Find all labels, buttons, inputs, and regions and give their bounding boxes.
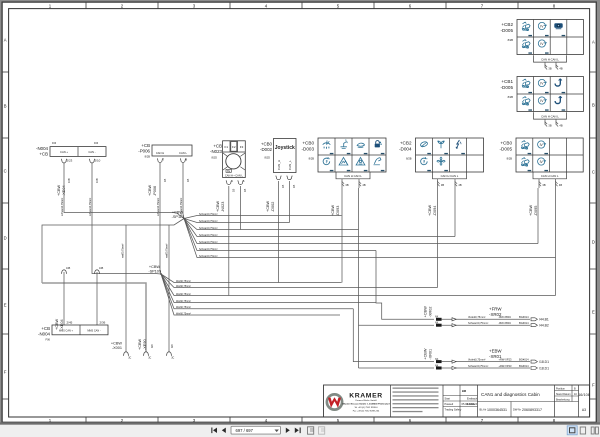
svg-text:F: F (4, 370, 7, 375)
bracket CAN pins +CB0 -D005 mid (533, 172, 567, 188)
label +CBW -XE04 rotated (bottom) (55, 319, 64, 330)
svg-text:A3: A3 (582, 408, 586, 412)
wire SP109 white line 2 (161, 274, 438, 288)
svg-text:3B: 3B (548, 123, 551, 127)
svg-text:3B: 3B (441, 183, 444, 187)
wire P006 pin7 to SP109 (160, 163, 161, 274)
wire N004 pin2/10 to SP109 (92, 163, 161, 274)
svg-text:CAN H CAN L: CAN H CAN L (541, 58, 559, 62)
svg-text:Weiß0,75mm²: Weiß0,75mm² (176, 293, 191, 296)
svg-text:CAN H: CAN H (156, 151, 164, 155)
svg-text:+FRW: +FRW (489, 306, 502, 311)
svg-text:4B: 4B (559, 66, 562, 70)
svg-text:-D005: -D005 (499, 147, 512, 152)
wire D002 CAN_L down (289, 181, 291, 223)
svg-text:Stand Datum: Stand Datum (556, 393, 571, 396)
svg-text:+CBW: +CBW (148, 185, 152, 196)
svg-text:3B: 3B (345, 183, 348, 187)
svg-text:3C: 3C (148, 357, 151, 360)
column index ticks bottom (86, 417, 518, 423)
wire SP109 white line 4 (161, 274, 376, 303)
row letters right band (590, 40, 596, 400)
svg-text:F06: F06 (94, 142, 99, 145)
label +CBW -X001 (111, 342, 122, 351)
svg-text:+CB1: +CB1 (501, 79, 513, 84)
label +CBW -D095 rotated (529, 205, 538, 216)
svg-text:Tel +49 (0) 7552 9288-0: Tel +49 (0) 7552 9288-0 (354, 407, 378, 409)
svg-text:+CB0: +CB0 (261, 142, 273, 147)
svg-text:-D002: -D002 (260, 147, 273, 152)
svg-text:-N023: -N023 (221, 202, 225, 212)
svg-text:+CBW: +CBW (111, 342, 122, 346)
device grid +CB1 -D005 (500, 77, 583, 112)
legal text cell (393, 388, 439, 413)
label +CBW -D002 rotated (266, 185, 296, 212)
svg-text:-XR02: -XR02 (428, 307, 432, 318)
svg-text:Schwarz0,75mm²: Schwarz0,75mm² (468, 364, 488, 368)
svg-text:Schwarz0,75mm²: Schwarz0,75mm² (199, 241, 218, 244)
svg-text:+CBW: +CBW (216, 201, 220, 212)
svg-text:BG#014: BG#014 (519, 364, 529, 368)
svg-text:CAN H • CAN L: CAN H • CAN L (225, 173, 244, 177)
svg-text:F06: F06 (46, 338, 51, 342)
svg-text:Violett0,75mm²: Violett0,75mm² (468, 315, 486, 319)
device grid +CB2 -D004 (399, 138, 484, 172)
wire D093 riser 1 (341, 188, 343, 283)
svg-text:C: C (4, 169, 7, 174)
svg-text:Kramer-Werke GmbH: Kramer-Werke GmbH (355, 399, 377, 402)
svg-text:2060893317: 2060893317 (522, 408, 542, 412)
wire D002 CAN_H down (278, 181, 280, 283)
svg-text:CAN_L: CAN_L (288, 160, 292, 170)
svg-text:-D005: -D005 (500, 85, 513, 90)
svg-text:-XR01: -XR01 (428, 349, 432, 360)
svg-text:-D095: -D095 (534, 206, 538, 216)
svg-text:+RW-XP23: +RW-XP23 (499, 364, 513, 368)
wire X001 stub right (168, 283, 170, 352)
svg-text:4B: 4B (559, 123, 562, 127)
svg-text:1B: 1B (243, 189, 247, 192)
bracket CAN pins +CB1 -D005 (534, 112, 567, 127)
svg-text:BG#014: BG#014 (519, 315, 529, 319)
bracket CAN pins +CB0 -D003 (336, 172, 370, 188)
label +CBW -D094 rotated (428, 205, 437, 216)
wire N023 pin5 down (240, 186, 242, 230)
wire feed to EBW row2 (359, 367, 435, 369)
wire P006 pin8 to SP110 (183, 163, 184, 219)
svg-text:CAN H CAN L: CAN H CAN L (441, 174, 459, 178)
svg-text:+CBW: +CBW (172, 211, 183, 215)
bracket CAN pins +CB2 -D005 (534, 55, 567, 70)
connector +FRW -XR02 (424, 306, 549, 328)
svg-text:CAN +: CAN + (60, 150, 68, 154)
svg-text:/44.B2: /44.B2 (539, 324, 549, 328)
wire D094 riser 2 (454, 188, 456, 237)
svg-text:+CBW: +CBW (331, 205, 335, 216)
svg-text:Erstbach: Erstbach (467, 402, 478, 406)
svg-text:8/2D: 8/2D (265, 156, 271, 160)
svg-text:Bearbeitung: Bearbeitung (556, 399, 570, 402)
wire SP109 white line 6 (161, 274, 340, 315)
svg-text:10B: 10B (95, 178, 99, 183)
svg-text:BG#014: BG#014 (519, 321, 529, 325)
svg-text:+CB: +CB (39, 151, 48, 156)
svg-text:CAN1 and diagnostics Cabin: CAN1 and diagnostics Cabin (481, 392, 540, 397)
svg-text:9/C: 9/C (150, 344, 154, 348)
wire X001 stub left vertical (125, 225, 127, 352)
svg-text:2/23: 2/23 (67, 158, 73, 162)
svg-text:Position: Position (556, 388, 566, 391)
toolbar right single-page button (580, 427, 585, 434)
svg-text:D: D (4, 236, 7, 241)
toolbar nav prev button (222, 428, 226, 433)
svg-text:KRAMER: KRAMER (349, 393, 382, 400)
svg-text:-D005: -D005 (500, 28, 513, 33)
svg-text:Schwarz0,75mm²: Schwarz0,75mm² (199, 248, 218, 251)
wire D095 riser 2 (555, 188, 557, 296)
wire SP110 black line 4 (184, 219, 455, 237)
right info cells (555, 385, 590, 412)
svg-text:697 / 697: 697 / 697 (236, 428, 254, 433)
svg-text:+CB: +CB (141, 143, 150, 148)
KRAMER logo (327, 393, 390, 413)
svg-text:+CBW: +CBW (57, 185, 61, 196)
title text cell (478, 392, 555, 417)
toolbar page combo box (231, 426, 281, 434)
svg-text:-N004: -N004 (38, 331, 51, 336)
svg-text:CAN H CAN L: CAN H CAN L (344, 174, 362, 178)
svg-text:CAN_H: CAN_H (277, 160, 281, 170)
svg-text:9/C: 9/C (170, 344, 174, 348)
stub hooks bottom (123, 352, 128, 356)
wire SP110 black line 5 (184, 219, 538, 244)
label +CBW -P006 rotated (148, 179, 190, 216)
svg-text:Joystick: Joystick (275, 145, 295, 151)
svg-text:+CBW: +CBW (424, 306, 428, 317)
svg-text:CAN L: CAN L (179, 151, 187, 155)
connector box +CB -N004 (bottom left) (38, 321, 108, 342)
svg-text:B: B (592, 103, 595, 108)
title block (324, 385, 590, 417)
svg-text:Start: Start (445, 397, 451, 401)
svg-text:1B: 1B (163, 179, 167, 182)
svg-text:-N023: -N023 (210, 149, 223, 154)
wire D095 riser 1 (537, 188, 539, 244)
toolbar copy-page icon 2 (disabled) (319, 427, 325, 434)
svg-text:schwarz0,75mm²: schwarz0,75mm² (61, 198, 64, 216)
bracket CAN pins +CB2 -D004 (433, 172, 467, 188)
svg-text:1B: 1B (281, 185, 285, 188)
wire SP110 black line 3 (184, 219, 359, 230)
svg-text:Violett0,75mm²: Violett0,75mm² (468, 357, 486, 361)
svg-text:+CBW: +CBW (428, 205, 432, 216)
svg-text:Weiß0,75mm²: Weiß0,75mm² (176, 280, 191, 283)
svg-text:-D094: -D094 (433, 206, 437, 216)
svg-text:F3: F3 (240, 145, 244, 149)
svg-text:+CB2: +CB2 (501, 22, 513, 27)
svg-text:BL-Nr: BL-Nr (480, 408, 487, 412)
svg-text:F: F (592, 383, 595, 388)
svg-text:+CBW: +CBW (266, 201, 270, 212)
toolbar right fit-page button (selected) (567, 426, 577, 435)
toolbar nav first-page button (211, 428, 217, 434)
component box +CB0 -D002 Joystick (260, 139, 296, 180)
svg-text:Weiß0,75mm²: Weiß0,75mm² (176, 285, 191, 288)
svg-text:-D093: -D093 (336, 206, 340, 216)
svg-text:10B: 10B (66, 267, 71, 270)
svg-text:16/108: 16/108 (578, 393, 590, 397)
svg-text:+CBW: +CBW (424, 348, 428, 359)
svg-text:Weiß0,75mm²: Weiß0,75mm² (176, 306, 191, 309)
svg-text:1B: 1B (292, 185, 296, 188)
svg-text:Schwarz0,75mm²: Schwarz0,75mm² (199, 220, 218, 223)
svg-text:3B: 3B (548, 66, 551, 70)
svg-text:-BW-XB04: -BW-XB04 (499, 321, 512, 325)
wire SP110 black line 2 (184, 219, 290, 223)
svg-text:2/10: 2/10 (95, 158, 101, 162)
wire SP109 white line 1 (161, 274, 342, 283)
wire SP110 black line 7 (184, 219, 556, 258)
junction node +CBW -SP110 (172, 211, 185, 220)
svg-text:BG#014: BG#014 (519, 357, 529, 361)
svg-text:Schwarz0,75mm²: Schwarz0,75mm² (199, 234, 218, 237)
svg-text:Schwarz0,75mm²: Schwarz0,75mm² (199, 255, 218, 258)
column numbers bottom (49, 418, 556, 423)
toolbar right two-page button (591, 427, 598, 434)
svg-text:+CB0: +CB0 (302, 141, 314, 146)
wire SP110 black line 6 (184, 219, 376, 251)
wire SP110 black line 1 (184, 216, 342, 219)
svg-text:D: D (592, 240, 595, 245)
label +CBW -XE04 rotated (57, 178, 99, 216)
heavy wire +CBW -XE90 rail (42, 283, 146, 352)
svg-text:weiß0,75mm²: weiß0,75mm² (166, 243, 169, 258)
svg-text:+CBW: +CBW (529, 205, 533, 216)
svg-text:+CB: +CB (41, 326, 50, 331)
svg-text:Schwarz0,75mm²: Schwarz0,75mm² (199, 213, 218, 216)
page bottom shadow (0, 422, 600, 424)
connector box +CB -N004 (top left) (36, 142, 106, 163)
svg-text:C: C (592, 170, 595, 175)
svg-text:+EBW: +EBW (489, 349, 502, 354)
revision cells (443, 385, 478, 417)
svg-text:+CB2: +CB2 (400, 141, 412, 146)
wire D094 riser 1 (437, 188, 439, 288)
wire feed to FRW row1 (376, 251, 434, 320)
svg-text:B: B (4, 104, 7, 109)
svg-text:2/36: 2/36 (100, 321, 106, 325)
label +CBW -XE90 rotated (138, 339, 174, 350)
svg-text:4B: 4B (458, 183, 461, 187)
svg-text:MMS CAN -: MMS CAN - (87, 329, 101, 332)
svg-text:+CBW: +CBW (138, 339, 142, 350)
svg-text:F1: F1 (225, 145, 229, 149)
svg-text:Schwarz0,75mm²: Schwarz0,75mm² (468, 321, 488, 325)
device grid +CB2 -D005 (500, 20, 583, 55)
rotary component +CB -N023 (210, 141, 245, 185)
label +CBW -N023 rotated (216, 189, 247, 212)
svg-text:/44.B1: /44.B1 (539, 318, 549, 322)
svg-text:A: A (592, 40, 595, 45)
wire N023 pin4 down (228, 186, 230, 296)
svg-text:3C: 3C (171, 357, 174, 360)
svg-text:3C: 3C (128, 357, 131, 360)
svg-text:1000364531: 1000364531 (487, 408, 507, 412)
svg-text:1B: 1B (232, 189, 236, 192)
svg-text:F06: F06 (52, 142, 57, 145)
wire SP109 white line 3 (161, 274, 556, 296)
wire feed to EBW row1 (353, 309, 434, 362)
svg-text:2/45: 2/45 (67, 321, 73, 325)
wire feed to FRW row2 (359, 324, 435, 326)
svg-text:CAN H CAN L: CAN H CAN L (541, 174, 559, 178)
svg-text:weiß0,75mm²: weiß0,75mm² (122, 243, 125, 258)
svg-text:8/2B: 8/2B (406, 157, 412, 161)
svg-text:Wacker Neuson Straße 1, D-8863: Wacker Neuson Straße 1, D-88630 Pfullend… (342, 403, 390, 406)
svg-text:-D004: -D004 (399, 147, 412, 152)
svg-text:schwarz0,75mm²: schwarz0,75mm² (157, 198, 160, 216)
wire SP110 left branch rail (42, 219, 184, 284)
svg-text:CAN -: CAN - (88, 150, 95, 154)
svg-text:-X001: -X001 (112, 346, 122, 350)
svg-text:+RW-XP23: +RW-XP23 (499, 357, 513, 361)
wire color labels X001 stubs (122, 243, 169, 258)
column index ticks top (86, 2, 518, 8)
svg-text:BM: BM (462, 389, 466, 393)
svg-text:-XE90: -XE90 (143, 339, 147, 350)
wire SP109 white line 5 (161, 274, 353, 309)
svg-text:8/2B: 8/2B (145, 155, 151, 159)
wire XE04 wire to MMS CAN+ (63, 272, 65, 325)
device grid +CB0 -D003 (301, 138, 386, 172)
svg-text:-D002: -D002 (271, 202, 275, 212)
net arrows bottom XE04 wires (61, 270, 99, 274)
svg-text:-SP110: -SP110 (172, 215, 184, 219)
device grid +CB0 -D005 (499, 138, 583, 172)
wire X001 stub mid vertical (168, 225, 170, 283)
svg-text:10B: 10B (67, 178, 71, 183)
wire XE04 wire to MMS CAN- (96, 272, 98, 325)
svg-text:/18.D1: /18.D1 (539, 366, 549, 370)
svg-text:/18.D1: /18.D1 (539, 360, 549, 364)
svg-text:10B: 10B (99, 267, 104, 270)
svg-text:+CB: +CB (213, 144, 222, 149)
svg-text:3B: 3B (542, 183, 545, 187)
svg-text:Fax +49 (0) 7552 9288-234: Fax +49 (0) 7552 9288-234 (353, 410, 380, 412)
connector +EBW -XR01 (424, 348, 550, 370)
svg-text:8/2B: 8/2B (309, 157, 315, 161)
toolbar strip (0, 425, 600, 437)
label +CBW -D093 rotated (331, 205, 340, 216)
svg-text:Passed: Passed (445, 402, 454, 406)
svg-text:F2: F2 (232, 145, 236, 149)
wire N004 pin2/23 to SP110 (64, 163, 184, 219)
row letters left band (2, 38, 8, 400)
svg-text:E: E (4, 303, 7, 308)
wire D093 riser 2 to FRW/EBW row2 (358, 188, 360, 368)
svg-text:-P006: -P006 (138, 148, 150, 153)
junction node +CBW -SP109 (148, 265, 162, 275)
svg-text:8/2D: 8/2D (212, 156, 218, 160)
svg-text:Schwarz0,75mm²: Schwarz0,75mm² (199, 227, 218, 230)
svg-text:CAN H CAN L: CAN H CAN L (541, 115, 559, 119)
toolbar copy-page icon (308, 427, 314, 434)
svg-text:Weiß0,75mm²: Weiß0,75mm² (176, 300, 191, 303)
svg-text:-BW-XB04: -BW-XB04 (499, 315, 512, 319)
svg-text:schwarz0,75mm²: schwarz0,75mm² (89, 198, 92, 216)
svg-text:+CBW: +CBW (55, 319, 59, 330)
svg-text:Trading Safety: Trading Safety (445, 408, 462, 412)
svg-text:4B: 4B (362, 183, 365, 187)
svg-text:+CB0: +CB0 (500, 141, 512, 146)
svg-text:A: A (4, 38, 7, 43)
toolbar nav last-page button (295, 428, 301, 434)
connector box +CB -P006 (138, 143, 192, 163)
svg-text:-XE04: -XE04 (60, 319, 64, 330)
svg-text:8/2B: 8/2B (508, 38, 514, 42)
svg-text:Weiß0,75mm²: Weiß0,75mm² (176, 312, 191, 315)
svg-text:-N004: -N004 (36, 146, 49, 151)
svg-text:8/2B: 8/2B (507, 157, 513, 161)
svg-text:-P006: -P006 (153, 186, 157, 196)
svg-text:DW-Nr: DW-Nr (513, 408, 521, 412)
svg-text:E: E (592, 310, 595, 315)
svg-text:-SP109: -SP109 (148, 270, 161, 274)
svg-text:-D003: -D003 (301, 147, 314, 152)
svg-text:8/2B: 8/2B (508, 95, 514, 99)
svg-text:Erstbach: Erstbach (467, 397, 478, 401)
column numbers top (49, 3, 556, 8)
toolbar nav next button (286, 428, 290, 433)
svg-text:1B: 1B (186, 179, 190, 182)
svg-text:4B: 4B (559, 183, 562, 187)
svg-text:+CBW: +CBW (149, 265, 160, 269)
